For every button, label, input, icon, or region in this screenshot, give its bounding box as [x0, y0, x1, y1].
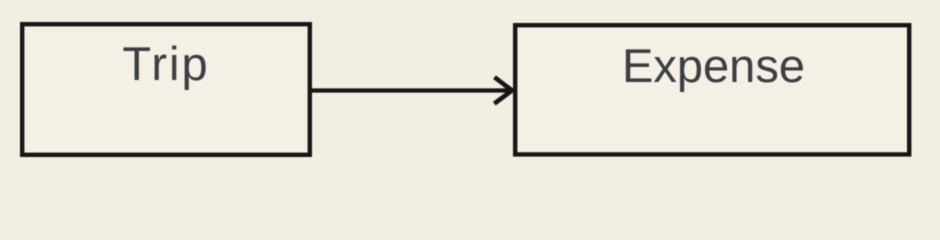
svg-text:Expense: Expense [622, 39, 805, 92]
wire arrow Trip to Expense [312, 77, 512, 103]
entity box Expense [515, 25, 909, 154]
svg-text:Trip: Trip [122, 37, 209, 90]
entity box Trip [22, 24, 310, 155]
